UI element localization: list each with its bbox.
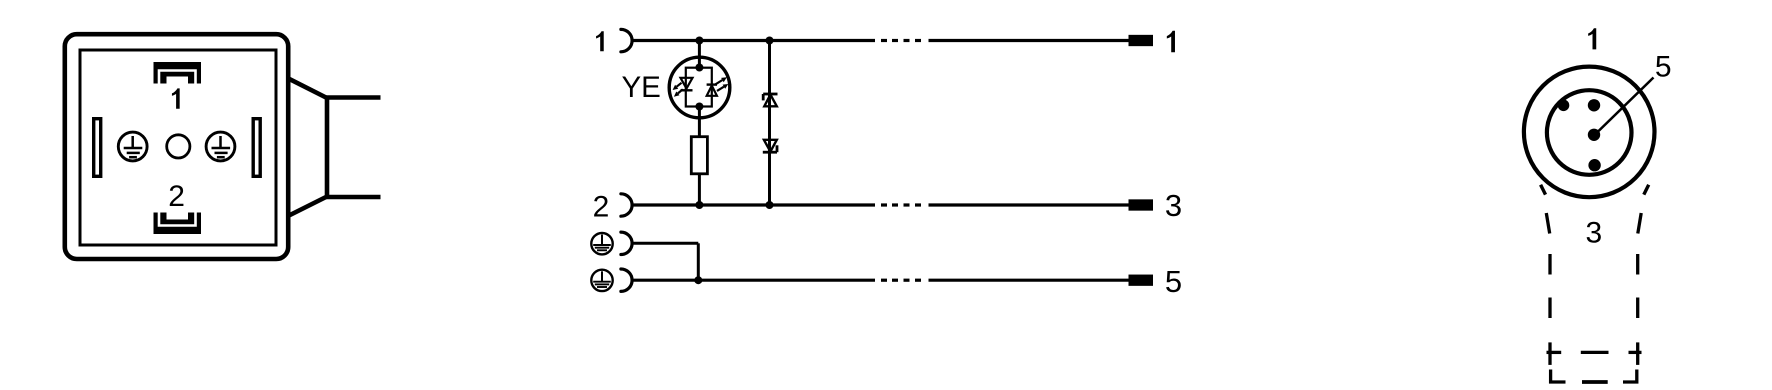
M12 pin 1 label: [1588, 28, 1596, 49]
connector J1 face (inner square): [80, 50, 276, 245]
cable stub bottom: [325, 195, 381, 200]
terminal lug line 3: [1129, 199, 1154, 210]
junction node on line 1 at suppressor branch: [766, 37, 774, 45]
LED pair loop: [686, 68, 712, 107]
cable gland (trapezoid): [289, 79, 327, 216]
wire line 1 solid right: [929, 39, 1129, 42]
pin 5 pointer line: [1596, 78, 1654, 134]
zener diode Z2 (cathode down): [763, 140, 777, 152]
PE contact left (earth symbol): [118, 132, 147, 161]
dashed body outline right: [1623, 213, 1641, 382]
svg-text:5: 5: [1165, 264, 1182, 299]
M12 pin 5 dot (center): [1588, 129, 1600, 141]
PE symbol lower: [591, 270, 612, 291]
pin 2 contact (bottom bracket): [154, 213, 202, 235]
svg-text:3: 3: [1586, 217, 1603, 250]
M12 keying dot: [1558, 100, 1570, 112]
PE symbol upper: [591, 233, 612, 254]
M12 connector inner circle: [1547, 90, 1632, 175]
junction node on line 1 at LED branch: [695, 37, 703, 45]
center hole: [167, 135, 190, 158]
LED D1 (left, cathode down): [681, 78, 693, 91]
pin 1 contact (top bracket): [154, 62, 202, 84]
wire line 1 solid left: [633, 39, 876, 42]
wire line 2 solid left: [633, 203, 876, 206]
wire line 5 solid right: [929, 279, 1129, 282]
LED D2 emission arrows: [716, 77, 729, 91]
node label 1 (left): [596, 31, 604, 51]
indicator lamp U1 circle: [669, 57, 730, 118]
connector J1 body (DIN 43650 outer housing): [65, 34, 288, 259]
wire line 5 cable-break dashes: [881, 279, 921, 282]
wire line 1 cable-break dashes: [881, 39, 921, 42]
svg-text:2: 2: [593, 190, 610, 223]
junction node on line 2 at suppressor: [766, 201, 774, 209]
svg-text:3: 3: [1165, 188, 1182, 223]
wire line 2 cable-break dashes: [881, 203, 921, 206]
contact arc pin 1: [621, 29, 632, 51]
M12 pin 1 dot: [1588, 99, 1600, 111]
contact arc pin 2: [621, 194, 632, 216]
junction node on line 5: [694, 276, 702, 284]
M12 pin 3 dot: [1588, 159, 1600, 171]
zener diode Z1 (cathode up): [763, 94, 777, 106]
wire from line 1 into lamp: [698, 41, 701, 68]
dashed bottom line: [1582, 380, 1608, 384]
svg-text:2: 2: [168, 180, 185, 213]
loop top node: [695, 64, 703, 72]
contact arc PE upper: [621, 232, 632, 254]
left keying slot: [94, 119, 101, 177]
wire lamp to resistor: [698, 107, 701, 137]
junction node on line 2 at resistor: [695, 201, 703, 209]
contact arc PE lower: [621, 269, 632, 291]
PE contact right (earth symbol): [206, 132, 235, 161]
M12 connector outer circle: [1524, 67, 1655, 198]
dashed body outline left: [1546, 213, 1565, 382]
suppressor branch wire: [768, 41, 771, 206]
body tick left: [1541, 185, 1546, 195]
body tick right: [1644, 185, 1649, 195]
LED D1 emission arrows: [673, 83, 683, 97]
wire line 5 solid left: [633, 279, 876, 282]
LED D2 (right, cathode up): [707, 85, 717, 96]
loop bottom node: [695, 103, 703, 111]
svg-text:5: 5: [1655, 51, 1672, 84]
wire PE upper horizontal: [633, 242, 699, 245]
terminal lug line 1: [1129, 35, 1154, 46]
pin 1 label: [172, 88, 180, 108]
wire PE upper drop: [697, 243, 700, 280]
terminal lug line 5: [1129, 275, 1154, 286]
wire line 2 solid right: [929, 203, 1129, 206]
terminal 1 label: [1167, 31, 1175, 52]
right keying slot: [253, 119, 260, 177]
wire resistor to line 2: [698, 174, 701, 205]
dashed coupling line: [1547, 351, 1642, 354]
svg-text:YE: YE: [622, 71, 661, 104]
resistor R1: [691, 137, 707, 174]
cable stub top: [325, 95, 381, 100]
